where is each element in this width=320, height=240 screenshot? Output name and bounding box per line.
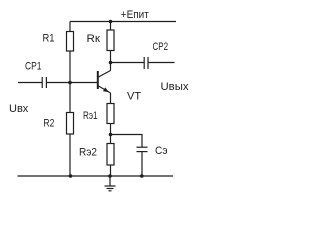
resistor R1 [67, 32, 74, 52]
node emitter branch junction [109, 133, 113, 137]
wire collector node to CP2 [111, 62, 145, 64]
capacitor CP1 [42, 77, 46, 88]
svg-text:R2: R2 [43, 118, 54, 130]
ground [105, 176, 116, 191]
node collector junction [109, 61, 113, 65]
capacitor CP2 [144, 57, 148, 69]
wire input from Uвх [18, 82, 42, 84]
resistor Rк [107, 30, 114, 51]
wire R1 top [69, 22, 71, 32]
svg-text:Uвх: Uвх [9, 103, 29, 115]
node Cэ-rail junction [140, 174, 144, 178]
wire Cэ bottom [141, 152, 143, 176]
node rail-Rк junction [109, 20, 113, 24]
transistor VT [98, 71, 111, 94]
svg-text:Cэ: Cэ [155, 145, 168, 157]
wire Rэ2 bottom [110, 165, 112, 176]
wire base [70, 82, 97, 84]
resistor Rэ2 [107, 144, 114, 166]
wire +Eпит top power rail [70, 21, 176, 23]
wire Rэ2 top [110, 135, 112, 144]
svg-text:Uвых: Uвых [161, 81, 190, 93]
resistor Rэ1 [107, 104, 114, 124]
svg-text:CP2: CP2 [153, 41, 169, 53]
svg-text:CP1: CP1 [25, 61, 42, 73]
wire R1 bottom [69, 51, 71, 83]
svg-text:Rэ2: Rэ2 [79, 147, 97, 159]
node R2-rail junction [69, 174, 73, 178]
svg-text:R1: R1 [43, 33, 55, 45]
svg-text:Rэ1: Rэ1 [83, 110, 98, 122]
svg-text:Rк: Rк [87, 33, 101, 45]
capacitor Cэ [137, 147, 148, 151]
wire R2 bottom [69, 134, 71, 176]
node base junction [68, 81, 72, 85]
wire bottom ground rail [18, 175, 174, 177]
wire emitter to Rэ1 [110, 93, 112, 104]
wire Rк bottom [110, 51, 112, 63]
svg-text:VT: VT [127, 91, 141, 103]
wire CP1 to base node [46, 82, 70, 84]
wire emitter node to Cэ [111, 135, 143, 148]
node ground-rail junction [108, 174, 112, 178]
resistor R2 [67, 113, 74, 135]
wire collector [110, 63, 112, 71]
wire rail to Rк [110, 22, 112, 31]
wire R2 top [69, 83, 71, 113]
svg-text:+Eпит: +Eпит [121, 9, 149, 21]
wire CP2 to output Uвых [148, 62, 175, 64]
wire Rэ1 bottom [110, 124, 112, 135]
